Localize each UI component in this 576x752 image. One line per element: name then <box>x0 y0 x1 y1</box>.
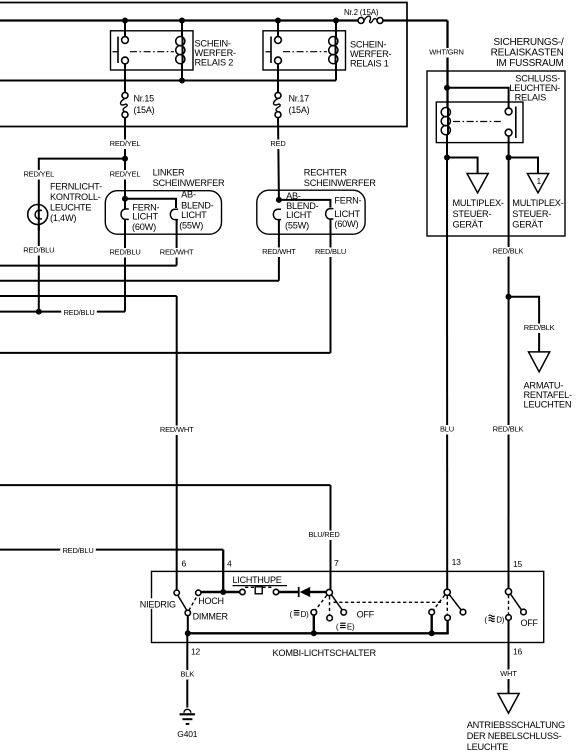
svg-text:RED/BLU: RED/BLU <box>109 248 140 257</box>
svg-text:FERN-: FERN- <box>334 195 361 205</box>
svg-text:(60W): (60W) <box>132 222 156 232</box>
svg-text:(60W): (60W) <box>334 219 358 229</box>
ground G401 <box>184 709 191 712</box>
node contact branch <box>506 155 512 161</box>
svg-text:SCHEIN-: SCHEIN- <box>195 38 231 48</box>
svg-text:RED/WHT: RED/WHT <box>262 247 296 256</box>
svg-text:RED/YEL: RED/YEL <box>110 139 141 148</box>
wire bus RED/BLU jumper <box>0 311 125 313</box>
relay K3 box <box>436 102 523 143</box>
svg-text:LINKER: LINKER <box>153 168 185 178</box>
svg-text:WHT/GRN: WHT/GRN <box>429 48 463 57</box>
switch S15 contact fog <box>506 615 512 621</box>
fuse Nr.2 (15A) <box>358 18 364 24</box>
node coil K2 to line C <box>179 78 185 84</box>
svg-text:IM FUSSRAUM: IM FUSSRAUM <box>496 58 564 69</box>
switch gang link dashed <box>334 601 444 603</box>
lamp L1 FERNLICHT-KONTROLL-LEUCHTE <box>38 205 40 231</box>
svg-text:Nr.15: Nr.15 <box>134 94 155 104</box>
lamp FERN-LICHT 60W right <box>326 209 334 219</box>
switch S13 contact mid <box>445 615 451 621</box>
wire branch to K3 contact <box>447 88 509 109</box>
lamp FERN-LICHT 60W left <box>124 199 126 209</box>
connector triangle ARMATURENTAFELLEUCHTEN <box>529 352 550 372</box>
svg-text:RED/BLK: RED/BLK <box>493 425 524 434</box>
switch dimmer HOCH contact <box>196 590 201 595</box>
svg-text:D): D) <box>301 610 310 619</box>
relay K1 coil leads <box>335 21 337 38</box>
wire pin12 BLK to ground <box>186 635 188 708</box>
relay K1 contact <box>277 21 279 38</box>
svg-text:(15A): (15A) <box>289 105 310 115</box>
svg-text:OFF: OFF <box>357 610 375 620</box>
svg-text:RED: RED <box>270 139 286 148</box>
switch S13 lever dashed left <box>433 595 444 610</box>
wire bus RED/WHT right headlight <box>0 280 279 282</box>
svg-text:KOMBI-LICHTSCHALTER: KOMBI-LICHTSCHALTER <box>273 648 377 658</box>
wire fuse17 down to right headlight <box>277 118 280 198</box>
node RED/YEL branch <box>122 156 128 162</box>
svg-text:LICHT: LICHT <box>286 210 312 220</box>
svg-text:12: 12 <box>191 647 201 657</box>
svg-text:RED/BLU: RED/BLU <box>315 247 346 256</box>
wire label RED/WHT right abblend <box>261 248 297 258</box>
wire branch to indicator lamp <box>39 159 125 205</box>
wire pin16 WHT <box>508 620 510 693</box>
wire jumper to FERN lamp right <box>279 200 331 208</box>
node coil branch <box>444 155 450 161</box>
wire bus line A (top feed) <box>0 3 407 127</box>
svg-text:4: 4 <box>227 559 232 569</box>
svg-text:LEUCHTEN: LEUCHTEN <box>524 400 572 410</box>
relay K2 coil leads <box>181 21 183 38</box>
relay K2 mechanical link <box>130 51 174 53</box>
svg-text:RELAIS 2: RELAIS 2 <box>195 57 234 67</box>
svg-text:WHT: WHT <box>500 669 517 678</box>
relay K1 mechanical link <box>283 51 327 53</box>
switch S15 contact OFF <box>521 609 527 615</box>
svg-text:NIEDRIG: NIEDRIG <box>140 599 176 609</box>
switch box KOMBI-LICHTSCHALTER <box>152 571 544 642</box>
switch S7 contact OFF <box>341 610 347 616</box>
svg-text:ANTRIEBSSCHALTUNG: ANTRIEBSSCHALTUNG <box>467 720 565 730</box>
svg-text:RED/BLK: RED/BLK <box>524 323 555 332</box>
svg-text:SCHEINWERFER: SCHEINWERFER <box>304 178 376 188</box>
wire jumper to ABBLEND lamp <box>125 199 176 208</box>
svg-text:RED/BLU: RED/BLU <box>63 308 94 317</box>
switch LICHTHUPE <box>240 589 245 594</box>
switch S13 lever dashed mid <box>446 596 448 615</box>
wire pin6 RED/WHT vertical <box>176 296 178 590</box>
relay K2 box SCHEINWERFER-RELAIS 2 <box>111 31 194 70</box>
svg-text:RED/BLU: RED/BLU <box>62 546 93 555</box>
svg-text:LICHT: LICHT <box>334 209 360 219</box>
svg-text:D): D) <box>496 616 505 625</box>
svg-text:RED/YEL: RED/YEL <box>110 170 141 179</box>
svg-text:RENTAFEL-: RENTAFEL- <box>524 390 573 400</box>
relay K3 contact <box>515 107 517 139</box>
svg-text:SCHLUSS-: SCHLUSS- <box>515 74 560 84</box>
fuse Nr.17 (15A) <box>274 98 281 111</box>
relay K2 coil <box>182 37 184 64</box>
svg-text:RED/WHT: RED/WHT <box>160 248 194 257</box>
svg-text:BLK: BLK <box>181 670 195 679</box>
svg-text:RED/WHT: RED/WHT <box>160 425 194 434</box>
svg-text:6: 6 <box>182 559 187 569</box>
wire label RED/WHT left abblend <box>159 248 195 258</box>
svg-text:DER NEBELSCHLUSS-: DER NEBELSCHLUSS- <box>467 731 562 741</box>
svg-text:STEUER-: STEUER- <box>453 209 492 219</box>
svg-text:MULTIPLEX-: MULTIPLEX- <box>453 198 504 208</box>
svg-text:E): E) <box>347 623 355 632</box>
svg-text:LEUCHTE: LEUCHTE <box>50 203 91 213</box>
svg-text:RELAIS: RELAIS <box>515 93 546 103</box>
svg-text:15: 15 <box>513 559 523 569</box>
wire K3 coil down <box>446 135 448 158</box>
lamp AB-BLEND-LICHT 55W right <box>273 209 281 219</box>
wire switch common bus <box>188 621 448 634</box>
svg-text:WERFER-: WERFER- <box>350 49 391 59</box>
svg-text:RELAIS 1: RELAIS 1 <box>350 59 389 69</box>
svg-text:LICHTHUPE: LICHTHUPE <box>233 575 282 585</box>
switch dimmer pivot <box>187 616 189 634</box>
wire label BLU/RED <box>306 531 342 541</box>
diode D1 <box>298 587 300 597</box>
switch S15 pivot <box>505 589 511 595</box>
switch S15 lever dashed <box>508 595 510 615</box>
wire WHT/GRN vertical <box>446 21 448 108</box>
svg-text:SCHEIN-: SCHEIN- <box>350 40 386 50</box>
node right headlight feed <box>276 197 282 203</box>
wire bus line B (y=20.5 feed to relays and fuse Nr.2) <box>0 19 358 21</box>
wire bus RED/WHT to dimmer pin6 <box>0 295 177 297</box>
svg-text:BLU: BLU <box>440 425 454 434</box>
svg-text:13: 13 <box>452 557 462 567</box>
fuse/relay box SICHERUNGS-/RELAISKASTEN IM FUSSRAUM <box>427 71 565 236</box>
svg-text:RED/BLK: RED/BLK <box>493 247 524 256</box>
svg-text:Nr.2 (15A): Nr.2 (15A) <box>344 8 379 17</box>
svg-text:LICHT: LICHT <box>132 212 158 222</box>
switch S13 pivot <box>444 589 450 595</box>
svg-text:LEUCHTEN-: LEUCHTEN- <box>509 83 560 93</box>
svg-text:(55W): (55W) <box>285 221 309 231</box>
wire bus RED/BLU to pin4 <box>0 549 223 551</box>
wire lichthupe to diode <box>279 591 298 593</box>
wire lamp L1 down to RED/BLU node <box>38 225 40 312</box>
fuse Nr.15 (15A) <box>121 98 128 111</box>
svg-text:DIMMER: DIMMER <box>193 611 229 621</box>
switch S7 contact mid <box>327 615 333 621</box>
svg-text:GERÄT: GERÄT <box>512 220 543 230</box>
svg-text:MULTIPLEX-: MULTIPLEX- <box>512 198 563 208</box>
switch S13 lever solid <box>450 595 461 610</box>
svg-text:AB-: AB- <box>286 191 301 201</box>
wire BLU vertical to pin13 <box>446 158 448 590</box>
svg-text:AB-: AB- <box>181 189 196 199</box>
wire K3 contact down <box>508 136 510 158</box>
relay K3 coil <box>447 108 449 136</box>
wire to multiplex 1 <box>447 158 478 174</box>
wire bus BLU/RED to pin7 <box>0 484 331 486</box>
switch S7 pivot <box>326 589 332 595</box>
svg-text:RECHTER: RECHTER <box>304 168 347 178</box>
node left headlight feed <box>122 196 128 202</box>
svg-text:SICHERUNGS-/: SICHERUNGS-/ <box>493 37 564 48</box>
wire RED/BLK vertical to pin15 <box>508 158 510 589</box>
wire pin4 vertical <box>222 550 224 592</box>
wire diode to pivot7 <box>310 591 326 593</box>
connector triangle NEBELSCHLUSS <box>498 694 519 714</box>
svg-text:RED/BLU: RED/BLU <box>23 246 54 255</box>
svg-text:FERNLICHT-: FERNLICHT- <box>50 182 102 192</box>
svg-text:KONTROLL-: KONTROLL- <box>50 192 101 202</box>
relay K2 contact <box>124 21 126 38</box>
svg-text:G401: G401 <box>177 729 197 739</box>
wire bus line C (y=80.5) <box>0 80 336 82</box>
svg-text:ARMATU-: ARMATU- <box>524 381 564 391</box>
wire label RED/BLU right fern <box>313 248 349 258</box>
relay K3 mechanical link <box>453 121 502 123</box>
switch S7 lever dashed left <box>315 595 327 610</box>
wire to multiplex 2 <box>509 158 538 174</box>
connector triangle multiplex 1 <box>467 174 488 193</box>
svg-text:BLU/RED: BLU/RED <box>308 530 340 539</box>
svg-text:HOCH: HOCH <box>198 596 224 606</box>
svg-text:LEUCHTE: LEUCHTE <box>467 742 508 752</box>
node RED/BLK branch <box>506 294 512 300</box>
headlight box LINKER SCHEINWERFER <box>105 191 221 235</box>
svg-text:RED/YEL: RED/YEL <box>23 170 54 179</box>
svg-text:STEUER-: STEUER- <box>512 209 551 219</box>
switch S7 contact headlight <box>311 610 317 616</box>
switch S13 contact right <box>460 609 466 615</box>
svg-text:7: 7 <box>334 558 339 568</box>
svg-text:BLEND-: BLEND- <box>181 201 214 211</box>
svg-text:Nr.17: Nr.17 <box>289 94 310 104</box>
svg-text:LICHT: LICHT <box>181 210 207 220</box>
wire bus RED/WHT left headlight <box>0 265 177 267</box>
svg-text:OFF: OFF <box>521 618 539 628</box>
svg-text:(55W): (55W) <box>179 221 203 231</box>
svg-text:WERFER-: WERFER- <box>195 48 236 58</box>
wire pin7 BLU/RED vertical <box>330 485 332 589</box>
svg-text:SCHEINWERFER: SCHEINWERFER <box>153 178 225 188</box>
switch S13 contact left <box>429 609 435 615</box>
wire branch to panel lights <box>509 297 540 352</box>
svg-text:(15A): (15A) <box>134 105 155 115</box>
switch dimmer lever solid <box>178 595 187 610</box>
wire bus RED/BLU right fern <box>0 352 331 354</box>
node junction dots on line B <box>122 18 128 24</box>
switch S7 lever solid to OFF <box>332 595 343 610</box>
switch S15 lever solid to OFF <box>511 594 522 609</box>
wire label RED/BLU left fern <box>107 248 143 258</box>
headlight box RECHTER SCHEINWERFER <box>257 190 365 234</box>
switch S7 lever dashed mid <box>329 596 331 614</box>
svg-text:(1,4W): (1,4W) <box>50 213 76 223</box>
connector triangle multiplex 2 pin 1 <box>527 174 548 193</box>
wire HOCH to pin4 node <box>201 591 240 593</box>
svg-text:16: 16 <box>513 647 523 657</box>
label NIEDRIG <box>140 598 177 609</box>
relay K1 box SCHEINWERFER-RELAIS 1 <box>263 31 346 70</box>
relay K1 coil <box>335 37 337 64</box>
wire fuse15 to junction <box>124 118 126 197</box>
switch dimmer NIEDRIG contact <box>174 590 179 595</box>
node WHT/GRN branch <box>444 85 450 91</box>
svg-text:GERÄT: GERÄT <box>453 220 484 230</box>
lamp AB-BLEND-LICHT 55W left <box>170 209 178 219</box>
switch dimmer lever dashed <box>189 595 198 610</box>
svg-text:RELAISKASTEN: RELAISKASTEN <box>491 48 564 59</box>
